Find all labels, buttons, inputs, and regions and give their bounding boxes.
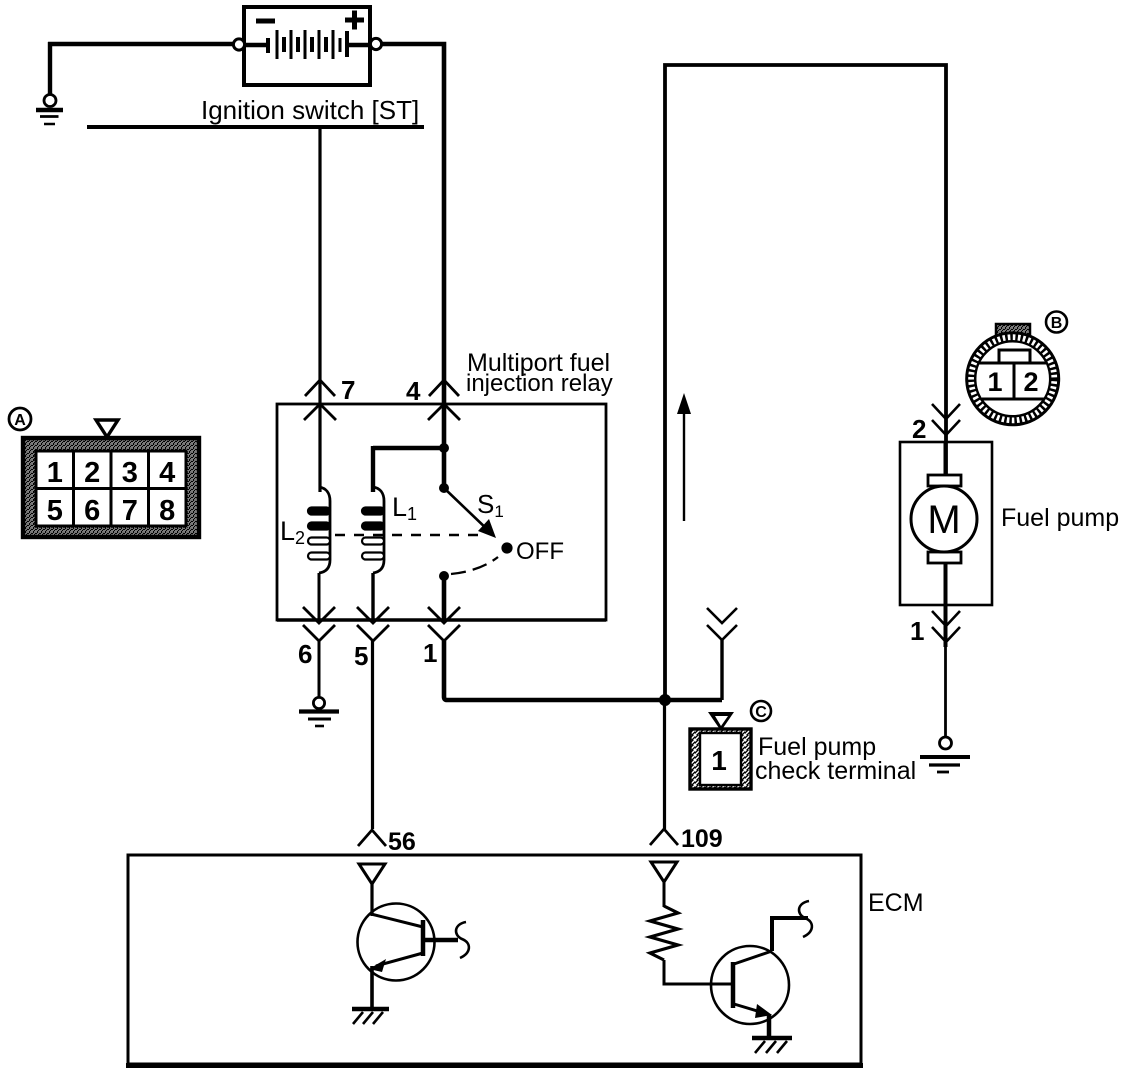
svg-text:109: 109 xyxy=(681,825,723,853)
wire motor to pin 1 xyxy=(944,563,948,647)
connector B tab xyxy=(996,324,1030,346)
wire down to left ground xyxy=(48,42,52,94)
svg-text:check terminal: check terminal xyxy=(755,757,916,785)
svg-text:Fuel pump: Fuel pump xyxy=(1001,504,1119,532)
svg-text:6: 6 xyxy=(84,495,100,527)
ECM box xyxy=(128,855,861,1064)
svg-text:C: C xyxy=(755,704,767,721)
svg-text:ECM: ECM xyxy=(868,889,924,917)
svg-text:A: A xyxy=(14,412,26,429)
svg-text:1: 1 xyxy=(987,367,1002,397)
connector A body xyxy=(23,438,199,537)
battery terminal right xyxy=(370,38,381,49)
circled A xyxy=(9,408,31,430)
svg-text:1: 1 xyxy=(910,616,924,646)
node junction relay pin4 / L1 xyxy=(439,443,449,453)
battery plus sign xyxy=(345,11,364,30)
ground G2 relay xyxy=(299,697,339,726)
switch S1 blade xyxy=(444,488,490,532)
pin 56 chevron xyxy=(358,830,386,846)
wire battery negative to ground corner xyxy=(48,42,236,47)
check terminal labels xyxy=(755,733,916,785)
pin 1 xyxy=(423,607,460,668)
pump pin 2 xyxy=(912,404,960,444)
svg-text:M: M xyxy=(927,498,960,542)
ground G1 top-left xyxy=(36,95,63,125)
check terminal stub chevrons xyxy=(707,608,737,640)
check terminal pointer triangle xyxy=(708,712,734,731)
mechanical link dashed line xyxy=(335,534,480,537)
resistor R1 xyxy=(650,906,678,960)
relay title xyxy=(466,349,613,397)
check terminal stub wire xyxy=(720,640,723,700)
wire relay pin 1 to junction xyxy=(444,641,722,700)
svg-text:Ignition switch [ST]: Ignition switch [ST] xyxy=(201,95,419,125)
pin 56 entry triangle xyxy=(359,864,385,884)
wire lower contact to pin 1 xyxy=(442,576,447,620)
wire pump to ground xyxy=(944,647,947,737)
switch lower contact xyxy=(439,571,449,581)
wire tall feed up and across to fuel pump xyxy=(665,65,946,700)
svg-text:1: 1 xyxy=(711,745,727,776)
pin 109 entry triangle xyxy=(651,862,677,882)
circled B xyxy=(1046,312,1067,333)
svg-text:injection relay: injection relay xyxy=(466,370,613,397)
pump pin 1 xyxy=(910,611,960,646)
ground Q1 xyxy=(352,1009,389,1024)
wire pin 5 to ECM pin 56 xyxy=(371,641,374,829)
node main junction xyxy=(659,694,671,706)
wire junction down to ECM pin 109 xyxy=(663,700,666,829)
pin 7 xyxy=(304,375,355,420)
svg-text:56: 56 xyxy=(388,828,416,856)
transistor Q2 xyxy=(711,901,812,1024)
pin 4 xyxy=(406,376,460,420)
svg-text:5: 5 xyxy=(47,495,63,527)
switch S1 pivot xyxy=(439,483,449,493)
wire 109 triangle to resistor xyxy=(663,882,666,907)
wire 56 triangle to Q1 xyxy=(370,884,373,916)
pin 6 xyxy=(298,607,335,669)
battery B1 box xyxy=(244,7,370,85)
ground G3 pump xyxy=(920,737,970,772)
svg-text:OFF: OFF xyxy=(516,538,564,565)
circled C xyxy=(751,701,771,721)
switch OFF contact xyxy=(501,542,512,553)
svg-text:7: 7 xyxy=(341,375,355,405)
fuel pump check terminal box xyxy=(690,729,751,789)
svg-text:3: 3 xyxy=(122,457,138,489)
battery terminal left xyxy=(233,39,244,50)
current direction arrow xyxy=(677,393,691,521)
switch throw arc xyxy=(451,557,498,574)
svg-text:4: 4 xyxy=(406,376,421,406)
wire resistor to Q2 base xyxy=(664,960,731,984)
svg-text:2: 2 xyxy=(84,457,100,489)
wire L2 to pin 6 xyxy=(318,573,321,620)
pin 109 chevron xyxy=(650,829,678,845)
svg-text:4: 4 xyxy=(159,457,175,489)
svg-text:8: 8 xyxy=(159,495,175,527)
coil L2 xyxy=(308,487,330,573)
wire pin4 junction to switch pivot xyxy=(442,448,447,488)
battery minus sign xyxy=(256,19,275,24)
wire pin 6 to ground xyxy=(318,641,321,698)
svg-text:2: 2 xyxy=(912,414,926,444)
wire ignition switch to relay pin 7 xyxy=(318,129,321,492)
svg-text:B: B xyxy=(1051,315,1063,332)
connector B body xyxy=(967,333,1059,425)
pin 5 xyxy=(354,607,389,671)
ECM bottom edge xyxy=(126,1063,863,1068)
wire Q2 emitter to ground xyxy=(767,1014,772,1036)
wire Q1 emitter to ground xyxy=(370,966,374,1008)
fuel pump box xyxy=(900,442,992,605)
link arrowhead xyxy=(478,519,496,538)
svg-text:2: 2 xyxy=(1023,367,1038,397)
svg-text:6: 6 xyxy=(298,639,312,669)
motor M xyxy=(911,475,977,563)
svg-text:1: 1 xyxy=(423,638,437,668)
ground Q2 xyxy=(752,1038,792,1053)
wire L1 top xyxy=(373,446,444,451)
battery cells xyxy=(244,30,370,59)
svg-text:7: 7 xyxy=(122,495,138,527)
connector A pointer triangle xyxy=(96,420,118,437)
wire battery positive to relay pin 4 xyxy=(381,44,444,448)
wire L1 to pin 5 xyxy=(371,573,374,620)
ignition switch line xyxy=(87,125,424,129)
transistor Q1 xyxy=(358,904,469,981)
wire pin2 to motor xyxy=(944,442,948,476)
svg-text:1: 1 xyxy=(47,457,63,489)
relay box xyxy=(277,404,606,620)
coil L1 xyxy=(362,487,384,573)
svg-text:5: 5 xyxy=(354,641,368,671)
